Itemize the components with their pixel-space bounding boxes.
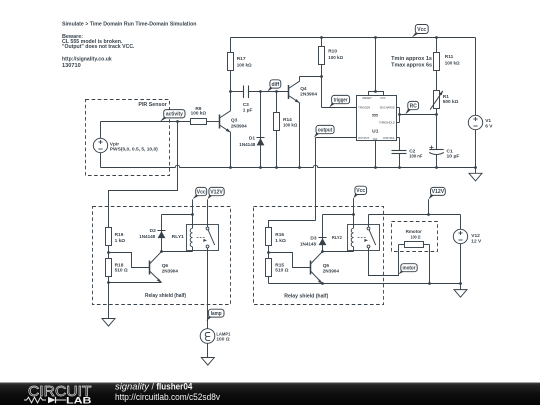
svg-text:Tmin approx 1s: Tmin approx 1s [391, 56, 432, 62]
svg-text:555: 555 [372, 112, 379, 117]
svg-text:100 kΩ: 100 kΩ [445, 61, 460, 67]
svg-text:motor: motor [403, 266, 416, 272]
svg-text:1 µF: 1 µF [243, 107, 253, 113]
svg-text:Rmotor: Rmotor [406, 229, 422, 235]
svg-text:Q3: Q3 [231, 117, 238, 123]
svg-text:Vcc: Vcc [417, 27, 426, 33]
svg-text:lamp: lamp [211, 311, 222, 317]
svg-text:U1: U1 [372, 129, 379, 135]
svg-text:Q4: Q4 [300, 86, 307, 92]
svg-text:1 kΩ: 1 kΩ [115, 238, 126, 244]
svg-text:C2: C2 [409, 148, 415, 154]
svg-text:Tmax approx 6s: Tmax approx 6s [391, 62, 432, 68]
svg-text:LAMP1: LAMP1 [216, 332, 230, 338]
svg-text:R14: R14 [283, 117, 292, 123]
svg-text:http://circuitlab.com/c52sd8v: http://circuitlab.com/c52sd8v [115, 392, 221, 402]
svg-text:2N3904: 2N3904 [323, 268, 340, 274]
svg-text:1N4148: 1N4148 [139, 234, 155, 240]
svg-text:R15: R15 [275, 262, 284, 268]
svg-text:100 kΩ: 100 kΩ [283, 123, 297, 129]
svg-text:GND: GND [373, 137, 378, 141]
svg-text:R17: R17 [237, 56, 246, 62]
svg-text:R19: R19 [115, 232, 124, 238]
svg-text:Q5: Q5 [323, 263, 330, 269]
svg-text:C3: C3 [243, 102, 249, 108]
svg-text:R1: R1 [443, 94, 449, 100]
svg-text:10 µF: 10 µF [447, 153, 460, 159]
svg-text:100 kΩ: 100 kΩ [191, 111, 207, 117]
svg-text:C1: C1 [447, 148, 453, 154]
svg-text:activity: activity [166, 112, 183, 118]
svg-text:LAB: LAB [66, 396, 92, 405]
svg-text:THRESHOLD: THRESHOLD [379, 121, 395, 125]
svg-text:Relay shield (half): Relay shield (half) [284, 293, 328, 299]
svg-text:R11: R11 [445, 54, 454, 60]
svg-text:R16: R16 [275, 232, 284, 238]
svg-text:V12: V12 [471, 233, 480, 239]
svg-text:VCC: VCC [380, 96, 386, 100]
svg-text:6 V: 6 V [485, 123, 493, 129]
svg-text:trigger: trigger [334, 97, 348, 103]
svg-text:PIR Sensor: PIR Sensor [138, 102, 166, 108]
svg-text:V12V: V12V [432, 189, 445, 195]
svg-text:RLY2: RLY2 [332, 235, 342, 241]
svg-text:Relay shield (half): Relay shield (half) [145, 293, 186, 299]
svg-text:1 kΩ: 1 kΩ [275, 238, 286, 244]
svg-text:"Output" does not track VCC.: "Output" does not track VCC. [62, 44, 135, 50]
svg-text:V12V: V12V [210, 189, 223, 195]
svg-text:R18: R18 [115, 262, 124, 268]
svg-text:output: output [318, 127, 333, 133]
svg-text:D1: D1 [249, 135, 255, 141]
svg-text:Q6: Q6 [162, 263, 169, 269]
svg-text:RC: RC [410, 103, 418, 109]
svg-text:D2: D2 [150, 228, 156, 234]
svg-text:100 nF: 100 nF [409, 153, 422, 159]
svg-text:510 Ω: 510 Ω [275, 268, 288, 274]
svg-text:V1: V1 [485, 118, 491, 124]
svg-text:100 kΩ: 100 kΩ [328, 55, 343, 61]
svg-text:Vcc: Vcc [197, 189, 206, 195]
svg-text:1N4148: 1N4148 [239, 142, 255, 148]
svg-text:510 Ω: 510 Ω [115, 268, 128, 274]
svg-text:signality / flusher04: signality / flusher04 [115, 381, 192, 391]
svg-text:diff: diff [271, 82, 279, 88]
svg-text:http://signality.co.uk: http://signality.co.uk [62, 57, 112, 63]
svg-text:2N3904: 2N3904 [231, 124, 247, 130]
svg-text:PWS(0,0, 0.5, 5, 10,0): PWS(0,0, 0.5, 5, 10,0) [110, 147, 158, 153]
svg-text:100 Ω: 100 Ω [216, 337, 229, 343]
svg-text:D3: D3 [310, 236, 316, 242]
svg-text:1N4148: 1N4148 [300, 242, 316, 248]
svg-text:2N3904: 2N3904 [300, 91, 317, 97]
svg-text:Vcc: Vcc [356, 188, 365, 194]
svg-text:2N3904: 2N3904 [162, 268, 179, 274]
svg-text:RESET: RESET [362, 96, 372, 100]
svg-text:DISCHARGE: DISCHARGE [380, 105, 395, 109]
svg-text:Simulate > Time Domain Run Tim: Simulate > Time Domain Run Time-Domain S… [62, 21, 197, 27]
svg-text:CONTROL: CONTROL [383, 136, 395, 140]
svg-text:500 kΩ: 500 kΩ [443, 99, 459, 105]
svg-text:Vpir: Vpir [110, 141, 119, 147]
svg-text:OUTPUT: OUTPUT [358, 136, 369, 140]
svg-text:100 kΩ: 100 kΩ [237, 63, 252, 69]
svg-text:R10: R10 [328, 48, 337, 54]
svg-text:12 V: 12 V [471, 238, 482, 244]
svg-text:RLY1: RLY1 [172, 234, 185, 240]
svg-text:100 Ω: 100 Ω [411, 235, 421, 241]
svg-text:TRIGGER: TRIGGER [358, 105, 371, 109]
svg-text:130710: 130710 [62, 63, 81, 69]
